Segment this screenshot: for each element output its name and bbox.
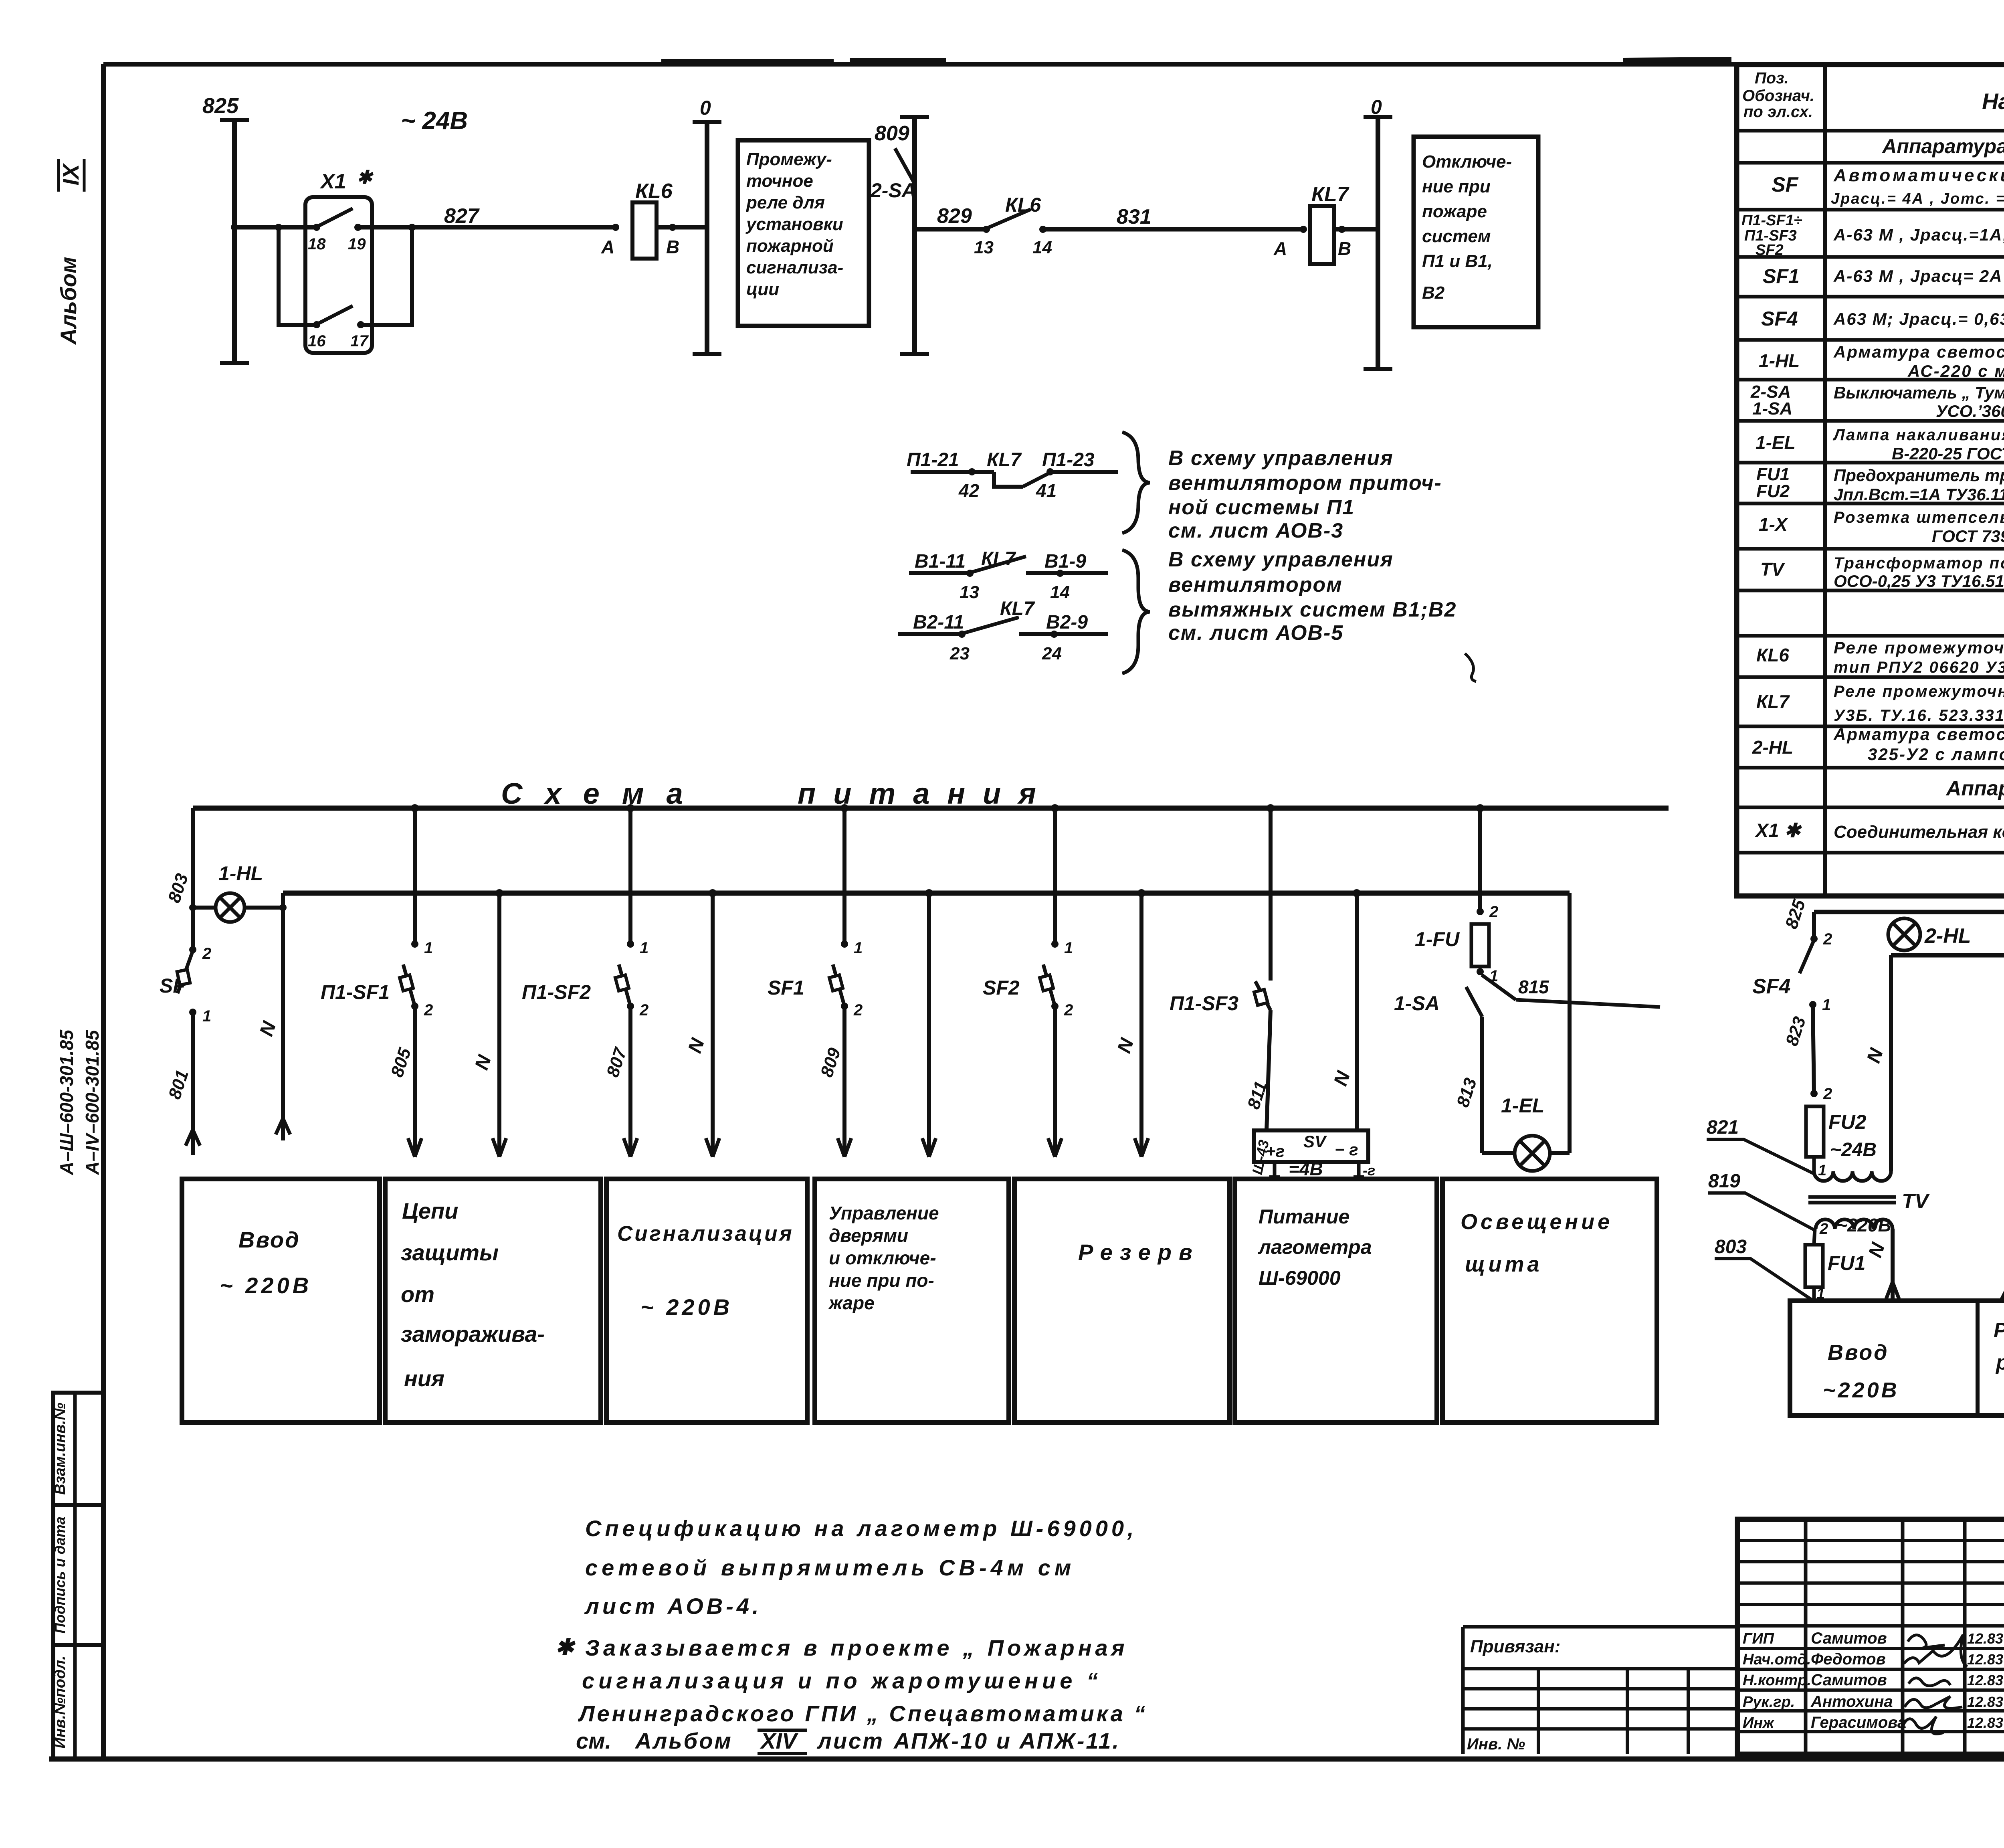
svg-text:~24В: ~24В <box>1830 1139 1877 1161</box>
breaker SF4 <box>1812 912 1816 939</box>
wire -g output <box>1357 1162 1361 1177</box>
svg-text:2: 2 <box>1823 930 1832 948</box>
svg-text:12.83: 12.83 <box>1967 1630 2003 1647</box>
svg-text:SF4: SF4 <box>1752 975 1790 998</box>
svg-text:сигнализа-: сигнализа- <box>746 258 843 277</box>
svg-text:1: 1 <box>1064 939 1073 957</box>
svg-text:В2: В2 <box>1422 283 1445 303</box>
svg-text:вытяжных систем В1;В2: вытяжных систем В1;В2 <box>1168 598 1457 621</box>
svg-text:~ 24В: ~ 24В <box>401 107 468 135</box>
svg-text:2: 2 <box>1819 1221 1828 1237</box>
svg-text:Предохранитель трубчатый ПТ-: Предохранитель трубчатый ПТ- <box>1834 466 2004 485</box>
function box: panel lighting <box>1442 1179 1657 1423</box>
wire 831 <box>1043 227 1303 232</box>
svg-text:=4В: =4В <box>1289 1159 1323 1179</box>
breaker P1-SF1 <box>413 808 417 944</box>
svg-text:12.83: 12.83 <box>1967 1715 2003 1731</box>
svg-text:1-EL: 1-EL <box>1501 1094 1544 1117</box>
svg-text:41: 41 <box>1036 480 1057 501</box>
wire KL7 to 0 bus <box>1334 227 1378 232</box>
svg-text:1: 1 <box>424 939 433 957</box>
svg-text:16: 16 <box>308 332 326 350</box>
svg-text:В схему управления: В схему управления <box>1168 548 1394 571</box>
svg-text:18: 18 <box>308 235 326 253</box>
function box: reserve <box>1014 1179 1230 1423</box>
svg-text:~ 220В: ~ 220В <box>640 1294 733 1320</box>
relay coil KL6 <box>632 202 657 259</box>
svg-text:П1-SF3: П1-SF3 <box>1170 992 1238 1015</box>
svg-text:А–Ш–600-301.85: А–Ш–600-301.85 <box>56 1029 77 1175</box>
svg-text:1-SA: 1-SA <box>1394 992 1440 1015</box>
neutral riser N <box>1889 955 1893 1171</box>
transformer TV core <box>1808 1195 1896 1199</box>
contact X1 pins 16-17 <box>313 321 320 328</box>
svg-text:1-HL: 1-HL <box>218 862 263 885</box>
switch 1-SA <box>1466 987 1482 1017</box>
svg-text:Управление: Управление <box>829 1203 939 1223</box>
brace 2 <box>1122 550 1150 673</box>
svg-text:П1 и В1,: П1 и В1, <box>1422 251 1493 271</box>
svg-text:1-FU: 1-FU <box>1415 928 1460 950</box>
svg-text:Ленинградского ГПИ „ Спецавт: Ленинградского ГПИ „ Спецавтоматика “ <box>578 1701 1147 1726</box>
svg-text:Реле промежуточное тип РПУ2: Реле промежуточное тип РПУ206620 <box>1834 683 2004 700</box>
svg-text:2: 2 <box>1489 903 1498 921</box>
svg-text:SV: SV <box>1303 1132 1327 1151</box>
wire 827 <box>358 225 616 230</box>
svg-text:Цепи: Цепи <box>402 1198 458 1223</box>
transformer TV secondary winding <box>1814 1171 1891 1181</box>
svg-text:Схема: Схема <box>501 777 705 810</box>
svg-text:КL6: КL6 <box>1756 645 1789 665</box>
top supply bus <box>193 806 1669 811</box>
fuse FU2 <box>1810 1090 1818 1097</box>
svg-text:Автоматический выключатель: Автоматический выключатель ~220В <box>1833 166 2004 185</box>
svg-text:и отключе-: и отключе- <box>829 1248 936 1268</box>
svg-text:23: 23 <box>949 644 970 663</box>
lamp 2-HL <box>1888 918 1920 950</box>
breaker SF branch <box>191 808 195 950</box>
svg-text:1-Х: 1-Х <box>1759 514 1788 535</box>
svg-text:ния: ния <box>404 1366 444 1391</box>
svg-text:Федотов: Федотов <box>1811 1650 1886 1668</box>
function box: door control <box>815 1179 1009 1423</box>
relay coil KL7 <box>1310 206 1334 264</box>
svg-text:заморажива-: заморажива- <box>401 1321 545 1347</box>
node 0 bus (first) <box>705 122 709 354</box>
svg-text:от: от <box>401 1282 434 1307</box>
junction box X1 <box>305 197 372 353</box>
svg-text:по эл.сх.: по эл.сх. <box>1743 103 1813 121</box>
wire KL6 to 0 bus <box>657 225 707 230</box>
svg-text:Спецификацию на лагометр: Спецификацию на лагометр Ш-69000, <box>585 1516 1137 1541</box>
svg-text:− г: − г <box>1335 1140 1358 1159</box>
svg-text:вентилятором приточ-: вентилятором приточ- <box>1168 471 1442 495</box>
svg-text:✱: ✱ <box>357 167 374 188</box>
svg-text:работы: работы <box>1995 1351 2004 1374</box>
svg-text:Соединительная коробка: Соединительная коробка <box>1834 822 2004 842</box>
svg-text:А63 М; Jрасц.= 0,63А; Jотс.=: А63 М; Jрасц.= 0,63А; Jотс.=1,3Jн U~24В <box>1833 309 2004 328</box>
svg-text:КL7: КL7 <box>1756 691 1790 712</box>
svg-text:24: 24 <box>1042 644 1062 663</box>
breaker P1-SF2 <box>628 808 632 944</box>
svg-text:Инж: Инж <box>1743 1715 1775 1731</box>
svg-text:Инв. №: Инв. № <box>1467 1735 1525 1753</box>
svg-text:~220В: ~220В <box>1836 1215 1891 1235</box>
wire bypass left <box>279 227 317 325</box>
svg-text:2-НL: 2-НL <box>1924 924 1971 948</box>
svg-text:ТV: ТV <box>1760 559 1785 580</box>
neutral branch N2 <box>497 893 501 1157</box>
svg-text:SF1: SF1 <box>1763 265 1800 287</box>
contact X1 pins 18-19 <box>313 224 320 231</box>
node 809 bus <box>912 117 917 354</box>
svg-text:SF2: SF2 <box>983 977 1020 999</box>
svg-text:FU1: FU1 <box>1828 1252 1865 1274</box>
node 0 bus (second) <box>1376 117 1380 369</box>
svg-text:В схему управления: В схему управления <box>1168 447 1394 470</box>
neutral branch N3 <box>711 893 715 1157</box>
neutral branch N6 <box>1355 893 1359 1130</box>
svg-text:Х1 ✱: Х1 ✱ <box>1754 820 1802 841</box>
svg-text:809: 809 <box>875 122 909 145</box>
svg-text:П1-SF1÷: П1-SF1÷ <box>1741 212 1802 229</box>
svg-text:SF1: SF1 <box>768 977 804 999</box>
function box: lagometer supply <box>1235 1179 1437 1423</box>
svg-text:защиты: защиты <box>401 1240 499 1265</box>
svg-text:SF4: SF4 <box>1761 307 1798 330</box>
svg-text:В-220-25 ГОСТ 2239-71: В-220-25 ГОСТ 2239-71 <box>1892 444 2004 463</box>
svg-text:325-У2 с лампой ~24В: 325-У2 с лампой ~24В <box>1868 745 2004 764</box>
svg-text:17: 17 <box>350 332 369 350</box>
svg-text:0: 0 <box>700 97 711 119</box>
svg-text:пожаре: пожаре <box>1422 202 1487 221</box>
svg-text:В1-9: В1-9 <box>1044 551 1086 572</box>
svg-text:Заказывается в проекте „ П: Заказывается в проекте „ Пожарная <box>585 1635 1128 1660</box>
svg-text:ОСО-0,25 У3 ТУ16.517.729-: ОСО-0,25 У3 ТУ16.517.729-78 <box>1834 572 2004 590</box>
svg-text:2-НL: 2-НL <box>1752 737 1793 758</box>
svg-text:лист АОВ-4.: лист АОВ-4. <box>584 1593 762 1619</box>
neutral bus <box>283 891 1570 896</box>
svg-text:Наименование: Наименование <box>1982 89 2004 114</box>
svg-text:13: 13 <box>974 238 994 257</box>
svg-text:Арматура светосигнальная: Арматура светосигнальная <box>1833 342 2004 361</box>
svg-text:АПЖ-10 и АПЖ-11.: АПЖ-10 и АПЖ-11. <box>893 1728 1120 1753</box>
svg-text:П1-23: П1-23 <box>1042 449 1095 471</box>
svg-text:19: 19 <box>348 235 366 253</box>
svg-text:Сигнализация: Сигнализация <box>617 1222 794 1245</box>
wire bypass right <box>361 227 412 325</box>
svg-text:лист: лист <box>816 1728 884 1753</box>
neutral branch N4 <box>927 893 931 1157</box>
svg-text:КL7: КL7 <box>1311 183 1349 206</box>
svg-text:сетевой выпрямитель СВ-4м: сетевой выпрямитель СВ-4м см <box>585 1555 1075 1580</box>
svg-text:В: В <box>666 237 679 257</box>
svg-text:12.83: 12.83 <box>1967 1651 2003 1668</box>
lamp 1-HL <box>193 906 283 910</box>
svg-text:1: 1 <box>202 1007 211 1025</box>
svg-text:Арматура светосигнальная А: Арматура светосигнальная АМЕ- <box>1833 725 2004 744</box>
svg-text:819: 819 <box>1708 1171 1740 1192</box>
svg-text:Н.контр.: Н.контр. <box>1743 1672 1811 1689</box>
svg-text:УСО.’360049ТУ: УСО.’360049ТУ <box>1936 402 2004 421</box>
svg-text:щита: щита <box>1465 1252 1543 1276</box>
svg-text:П1-21: П1-21 <box>907 449 959 471</box>
svg-text:пожарной: пожарной <box>746 236 834 256</box>
title block upper-left grid <box>1737 1539 2004 1542</box>
svg-text:Взам.инв.№: Взам.инв.№ <box>52 1403 69 1495</box>
node A KL6 <box>612 224 619 231</box>
svg-text:Ввод: Ввод <box>238 1227 300 1252</box>
svg-text:827: 827 <box>444 204 480 228</box>
wire 825 top <box>1814 910 2004 914</box>
left margin stamp boxes <box>53 1393 104 1505</box>
svg-text:2: 2 <box>424 1001 433 1019</box>
svg-text:см. лист АОВ-5: см. лист АОВ-5 <box>1168 621 1343 645</box>
svg-text:У3Б. ТУ.16. 523.331-78: У3Б. ТУ.16. 523.331-78 U~220В f=50Гц <box>1834 707 2004 724</box>
svg-text:Трансформатор понижающий ~22: Трансформатор понижающий ~220/24В <box>1834 554 2004 572</box>
svg-text:821: 821 <box>1707 1117 1739 1138</box>
svg-text:Резерв: Резерв <box>1078 1239 1200 1265</box>
svg-text:систем: систем <box>1422 226 1491 246</box>
svg-text:Выключатель „ Тумблер", тип: Выключатель „ Тумблер", тип ТВ-1-1 <box>1834 383 2004 402</box>
svg-text:825: 825 <box>202 94 239 118</box>
svg-text:Х1: Х1 <box>319 170 346 193</box>
svg-text:ХIV: ХIV <box>760 1728 799 1753</box>
breaker SF2 <box>1053 808 1057 944</box>
svg-text:Нач.отд.: Нач.отд. <box>1743 1651 1811 1668</box>
svg-text:2: 2 <box>853 1001 863 1019</box>
svg-text:Освещение: Освещение <box>1461 1210 1613 1234</box>
node 825 bus <box>232 120 237 363</box>
fuse 1-FU branch <box>1478 808 1482 912</box>
contact KL6 pins 13-14 <box>983 226 990 233</box>
svg-text:В2-9: В2-9 <box>1046 612 1088 633</box>
function box: input 220V <box>182 1179 380 1423</box>
svg-text:Герасимова: Герасимова <box>1811 1714 1906 1731</box>
svg-text:Ремонтные: Ремонтные <box>1994 1319 2004 1342</box>
function box: freeze protection circuits <box>385 1179 601 1423</box>
svg-text:2: 2 <box>1064 1001 1073 1019</box>
privyazan box <box>1463 1625 1737 1629</box>
specification table grid <box>1737 65 2004 896</box>
svg-text:Аппаратура на щите: Аппаратура на щите <box>1881 135 2004 158</box>
svg-text:2-SA: 2-SA <box>870 179 916 202</box>
svg-text:IХ: IХ <box>58 163 83 186</box>
svg-text:В1-11: В1-11 <box>915 551 966 572</box>
svg-text:сигнализация и по жаротуше: сигнализация и по жаротушение “ <box>582 1668 1102 1693</box>
svg-text:Альбом: Альбом <box>634 1728 733 1753</box>
svg-text:Рук.гр.: Рук.гр. <box>1743 1694 1795 1711</box>
title block person rows <box>1737 1647 2004 1650</box>
svg-text:установки: установки <box>745 214 843 234</box>
svg-text:см. лист АОВ-3: см. лист АОВ-3 <box>1168 519 1343 542</box>
svg-text:Привязан:: Привязан: <box>1470 1637 1560 1656</box>
title block frame <box>1737 1519 2004 1754</box>
svg-text:2: 2 <box>1823 1085 1832 1103</box>
signature squiggles <box>1908 1635 1945 1648</box>
svg-text:1-НL: 1-НL <box>1759 350 1800 371</box>
svg-text:ТV: ТV <box>1902 1190 1930 1213</box>
rectifier box SV <box>1254 1130 1368 1162</box>
svg-text:тип РПУ2 06620 У3Б ТУ1: тип РПУ2 06620 У3Б ТУ16.523.331-78 <box>1834 659 2004 676</box>
svg-text:А: А <box>601 237 614 257</box>
svg-text:ции: ции <box>746 279 779 299</box>
svg-text:Поз.: Поз. <box>1755 69 1789 87</box>
box input 220V (right) <box>1790 1301 2004 1415</box>
svg-text:42: 42 <box>958 480 980 501</box>
svg-text:FU2: FU2 <box>1828 1111 1867 1133</box>
svg-text:✱: ✱ <box>555 1634 576 1660</box>
svg-text:0: 0 <box>1371 96 1382 118</box>
svg-text:В2-11: В2-11 <box>913 612 964 633</box>
svg-text:КL6: КL6 <box>635 180 673 203</box>
svg-text:1: 1 <box>640 939 648 957</box>
svg-text:Подпись и дата: Подпись и дата <box>52 1516 68 1634</box>
svg-text:Самитов: Самитов <box>1811 1630 1887 1647</box>
svg-text:Инв.№подл.: Инв.№подл. <box>52 1656 69 1748</box>
svg-text:Ш-69000: Ш-69000 <box>1259 1267 1341 1289</box>
wire to lagometer <box>1273 1162 1277 1177</box>
svg-text:ГИП: ГИП <box>1743 1630 1774 1647</box>
svg-text:-г: -г <box>1363 1162 1375 1179</box>
svg-text:1-SА: 1-SА <box>1752 399 1792 419</box>
text box: intermediate relay for fire alarm <box>738 140 869 326</box>
svg-text:ной системы П1: ной системы П1 <box>1168 496 1355 519</box>
svg-text:А: А <box>1273 238 1287 259</box>
svg-text:~ 220В: ~ 220В <box>220 1273 312 1298</box>
node B KL7 <box>1338 226 1345 233</box>
svg-text:803: 803 <box>1715 1236 1747 1258</box>
node A KL7 <box>1300 226 1307 233</box>
wire 829 <box>915 227 986 232</box>
wire 825 to X1 <box>234 225 317 230</box>
svg-text:1: 1 <box>1818 1162 1826 1179</box>
svg-text:Промежу-: Промежу- <box>746 150 832 169</box>
svg-text:831: 831 <box>1117 205 1151 228</box>
fork left <box>2001 1274 2004 1301</box>
svg-text:АС-220 с молочным светоф.: АС-220 с молочным светоф. <box>1907 362 2004 380</box>
neutral branch N5 <box>1139 893 1143 1157</box>
svg-text:точное: точное <box>746 171 813 191</box>
svg-text:FU2: FU2 <box>1756 481 1790 501</box>
svg-text:В: В <box>1338 238 1351 259</box>
svg-text:ГОСТ 7396-76: ГОСТ 7396-76 <box>1932 527 2004 546</box>
fuse FU1 <box>1814 1229 1815 1245</box>
svg-text:КL6: КL6 <box>1005 194 1041 216</box>
svg-text:SF: SF <box>1772 173 1799 196</box>
svg-text:14: 14 <box>1050 582 1070 602</box>
breaker P1-SF3 <box>1269 808 1273 981</box>
svg-text:Jрасц.= 4А , Jотс. = 1,3 Jн ,т: Jрасц.= 4А , Jотс. = 1,3 Jн ,тип А 63М Т… <box>1831 190 2004 207</box>
svg-text:815: 815 <box>1518 977 1549 997</box>
svg-text:Обознач.: Обознач. <box>1742 87 1814 105</box>
svg-text:реле для: реле для <box>746 193 825 212</box>
transformer TV primary winding <box>1816 1219 1893 1229</box>
svg-text:Самитов: Самитов <box>1811 1671 1887 1689</box>
svg-text:14: 14 <box>1032 238 1052 257</box>
svg-text:лагометра: лагометра <box>1258 1236 1372 1258</box>
svg-text:~220В: ~220В <box>1823 1378 1899 1402</box>
svg-text:Антохина: Антохина <box>1810 1693 1893 1711</box>
svg-text:дверями: дверями <box>829 1225 908 1246</box>
svg-text:829: 829 <box>937 204 972 228</box>
wire 815 <box>1482 975 1516 1000</box>
svg-text:Отключе-: Отключе- <box>1422 152 1512 172</box>
switch 2-SA <box>895 148 915 184</box>
svg-text:Питание: Питание <box>1259 1205 1349 1228</box>
svg-text:см.: см. <box>576 1728 611 1753</box>
brace 1 <box>1122 432 1150 533</box>
svg-text:вентилятором: вентилятором <box>1168 573 1343 596</box>
svg-text:питания: питания <box>798 777 1054 810</box>
neutral wire N top <box>1891 953 2004 958</box>
svg-text:1: 1 <box>1822 996 1831 1014</box>
function box: signalling 220V <box>606 1179 807 1423</box>
svg-text:Реле промежуточное U~24В: Реле промежуточное U~24В <box>1834 638 2004 657</box>
text box: switch off on fire <box>1414 137 1538 327</box>
svg-text:ние при: ние при <box>1422 177 1491 196</box>
svg-text:SF2: SF2 <box>1756 242 1784 259</box>
neutral into box <box>1891 1229 1895 1301</box>
svg-text:Аппаратура по месту: Аппаратура по месту <box>1945 777 2004 800</box>
svg-text:А-63 М , Jрасц= 2А , Jотс.=1,3: А-63 М , Jрасц= 2А , Jотс.=1,3 Jн U~220В <box>1833 267 2004 285</box>
svg-text:2: 2 <box>202 945 211 962</box>
svg-text:ние при по-: ние при по- <box>829 1270 934 1291</box>
neutral branch N1 <box>281 893 285 908</box>
svg-text:Jпл.Вст.=1А ТУ36.1101-71: Jпл.Вст.=1А ТУ36.1101-71 <box>1834 485 2004 504</box>
svg-text:А-63 М , Jрасц.=1А; Jотс=1,3: А-63 М , Jрасц.=1А; Jотс=1,3 Jн U~220В <box>1833 225 2004 244</box>
breaker SF1 <box>842 808 846 944</box>
svg-text:П1-SF2: П1-SF2 <box>522 981 591 1003</box>
svg-text:12.83: 12.83 <box>1967 1672 2003 1688</box>
svg-text:П1-SF1: П1-SF1 <box>321 981 390 1003</box>
node B KL6 <box>669 224 676 231</box>
svg-text:Розетка штепсельная Рш-ц-2-0: Розетка штепсельная Рш-ц-2-00-6-250 <box>1834 509 2004 526</box>
svg-text:жаре: жаре <box>828 1292 875 1313</box>
scan mark <box>1465 653 1476 681</box>
svg-text:1-ЕL: 1-ЕL <box>1756 432 1796 453</box>
svg-text:Альбом: Альбом <box>56 257 81 346</box>
svg-text:Лампа накаливания общего на: Лампа накаливания общего назначения <box>1832 426 2004 444</box>
svg-text:Ввод: Ввод <box>1828 1341 1889 1365</box>
svg-text:13: 13 <box>960 582 979 602</box>
svg-text:12.83: 12.83 <box>1967 1694 2003 1710</box>
svg-text:А–IV–600-301.85: А–IV–600-301.85 <box>82 1029 103 1175</box>
svg-text:1: 1 <box>854 939 863 957</box>
svg-text:2: 2 <box>639 1001 648 1019</box>
wire <box>103 62 2004 67</box>
svg-text:КL7: КL7 <box>987 449 1022 471</box>
